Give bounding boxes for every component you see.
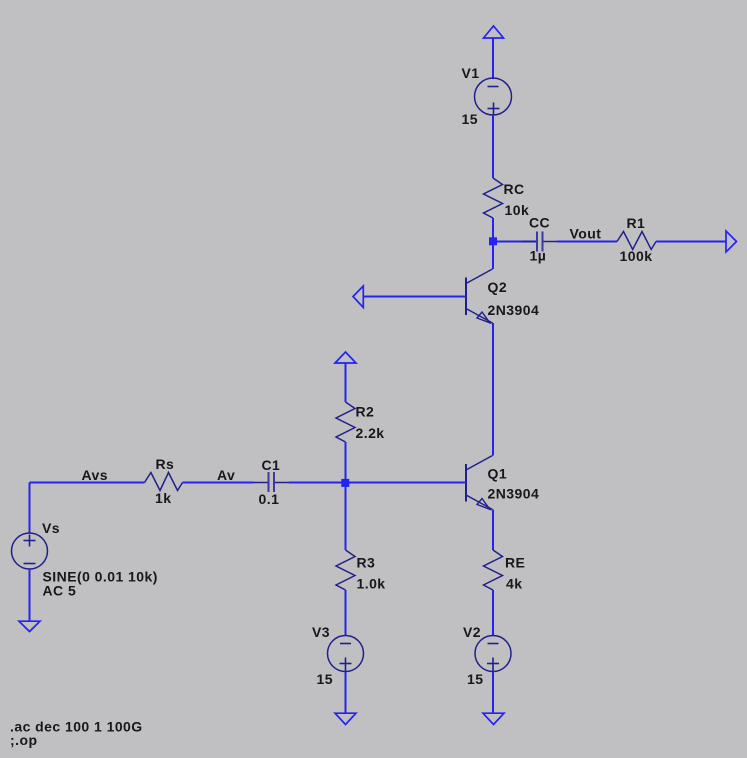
wire flag to Q2 base (363, 296, 466, 298)
wire RE to V2 (492, 590, 494, 636)
power flag above R2 (335, 352, 356, 363)
svg-text:Rs: Rs (156, 456, 175, 472)
svg-text:2.2k: 2.2k (356, 425, 385, 441)
output port arrow right (726, 231, 737, 252)
wire node to CC (493, 241, 537, 243)
net label Vout (570, 226, 602, 242)
resistor R2 (336, 402, 355, 442)
label Rs (156, 456, 175, 472)
svg-text:R3: R3 (357, 555, 376, 571)
wire R2 to node (345, 442, 347, 482)
value 15 (V3) (317, 671, 333, 687)
svg-text:R2: R2 (356, 404, 375, 420)
spice directive ;.op (10, 732, 37, 748)
svg-text:Q1: Q1 (488, 466, 508, 482)
label Q1 (488, 466, 508, 482)
wire V1 to RC (492, 115, 494, 178)
value 1u (CC) (530, 248, 547, 264)
label Q2 (488, 279, 508, 295)
wire Q1 emitter to RE (492, 510, 494, 551)
value 10k (RC) (505, 202, 530, 218)
resistor RE (484, 550, 503, 590)
label R3 (357, 555, 376, 571)
ground V3 (335, 713, 356, 724)
label RC (504, 181, 525, 197)
svg-text:1µ: 1µ (530, 248, 547, 264)
label CC (529, 215, 550, 231)
capacitor CC (522, 232, 557, 252)
wire flag to V1 top (492, 38, 494, 79)
wire Vs to ground (29, 569, 31, 621)
value AC 5 (Vs) (43, 583, 77, 599)
svg-text:2N3904: 2N3904 (488, 486, 540, 502)
svg-text:AC 5: AC 5 (43, 583, 77, 599)
svg-text:Vs: Vs (42, 520, 60, 536)
wire R1 to output port (656, 241, 726, 243)
voltage source Vs (12, 533, 48, 569)
wire Rs to C1 (183, 482, 254, 484)
wire V3 to ground (345, 672, 347, 714)
resistor R1 (617, 232, 656, 250)
node junction collector (489, 237, 497, 245)
wire input node up from source Vs (29, 483, 31, 534)
svg-text:15: 15 (462, 111, 478, 127)
svg-text:Av: Av (217, 467, 235, 483)
node junction input (341, 479, 349, 487)
base flag arrow left (Q2) (353, 286, 363, 308)
label V1 (462, 65, 480, 81)
value 0.1 (C1) (259, 491, 280, 507)
svg-text:15: 15 (317, 671, 333, 687)
svg-text:Q2: Q2 (488, 279, 508, 295)
value 2N3904 (Q1) (488, 486, 540, 502)
label C1 (262, 457, 281, 473)
svg-text:V2: V2 (463, 624, 481, 640)
transistor Q2 (466, 269, 493, 323)
voltage source V3 (328, 636, 364, 672)
svg-text:RC: RC (504, 181, 525, 197)
value 2N3904 (Q2) (488, 302, 540, 318)
label Vs (42, 520, 60, 536)
svg-text:2N3904: 2N3904 (488, 302, 540, 318)
label RE (505, 555, 525, 571)
svg-text:Avs: Avs (82, 467, 109, 483)
value 2.2k (R2) (356, 425, 385, 441)
net label Avs (82, 467, 109, 483)
svg-text:V3: V3 (312, 624, 330, 640)
resistor R3 (336, 550, 355, 590)
svg-text:;.op: ;.op (10, 732, 37, 748)
svg-text:R1: R1 (627, 215, 646, 231)
label R2 (356, 404, 375, 420)
svg-text:RE: RE (505, 555, 525, 571)
svg-text:V1: V1 (462, 65, 480, 81)
svg-text:15: 15 (467, 671, 483, 687)
transistor Q1 (466, 456, 493, 510)
wire node to Q2 collector (492, 242, 494, 270)
svg-text:1.0k: 1.0k (357, 576, 386, 592)
ground V2 (483, 713, 504, 724)
net label Av (217, 467, 235, 483)
wire flag to R2 (345, 363, 347, 402)
wire Q2 emitter to Q1 collector (492, 323, 494, 456)
wire V2 to ground (492, 672, 494, 714)
value SINE (Vs) (43, 569, 158, 585)
wire node down to R3 (345, 483, 347, 550)
wire C1 to Q1 base through node (289, 482, 466, 484)
ground Vs (19, 621, 40, 631)
label R1 (627, 215, 646, 231)
svg-text:10k: 10k (505, 202, 530, 218)
value 4k (RE) (506, 576, 522, 592)
wire RC to node (492, 218, 494, 241)
wire R3 to V3 (345, 590, 347, 636)
voltage source V2 (475, 636, 511, 672)
svg-text:Vout: Vout (570, 226, 602, 242)
capacitor C1 (253, 472, 289, 492)
svg-text:0.1: 0.1 (259, 491, 280, 507)
wire CC to R1 (557, 241, 617, 243)
resistor RC (484, 178, 503, 218)
svg-text:100k: 100k (620, 248, 653, 264)
svg-text:1k: 1k (155, 490, 171, 506)
svg-text:4k: 4k (506, 576, 522, 592)
svg-text:CC: CC (529, 215, 550, 231)
voltage source V1 (475, 78, 512, 115)
resistor Rs (145, 473, 183, 491)
label V2 (463, 624, 481, 640)
label V3 (312, 624, 330, 640)
spice directive .ac (10, 719, 143, 735)
value 1k (Rs) (155, 490, 171, 506)
input chain: wire source top to Rs (30, 482, 145, 484)
value 100k (R1) (620, 248, 653, 264)
power flag top of V1 (484, 26, 504, 38)
value 15 (V1) (462, 111, 478, 127)
value 1.0k (R3) (357, 576, 386, 592)
svg-text:C1: C1 (262, 457, 281, 473)
value 15 (V2) (467, 671, 483, 687)
